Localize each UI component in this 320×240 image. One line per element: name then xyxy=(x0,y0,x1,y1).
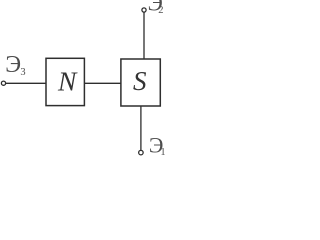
magnet pole box N xyxy=(46,58,84,105)
terminal Э3 (electrode circle) xyxy=(1,81,5,85)
svg-text:1: 1 xyxy=(160,147,165,157)
wire between N and S boxes xyxy=(84,82,121,84)
svg-text:3: 3 xyxy=(20,67,25,78)
svg-text:Э: Э xyxy=(5,52,21,78)
svg-text:2: 2 xyxy=(158,5,163,16)
wire left terminal to N box xyxy=(6,82,47,84)
wire top terminal to S box xyxy=(143,12,145,59)
magnet pole box S xyxy=(121,59,160,106)
svg-text:N: N xyxy=(57,65,78,96)
svg-text:S: S xyxy=(133,66,147,96)
terminal Э2 (electrode circle) xyxy=(142,8,146,12)
wire S box to bottom terminal xyxy=(140,106,142,150)
terminal Э1 (electrode circle) xyxy=(139,150,144,155)
